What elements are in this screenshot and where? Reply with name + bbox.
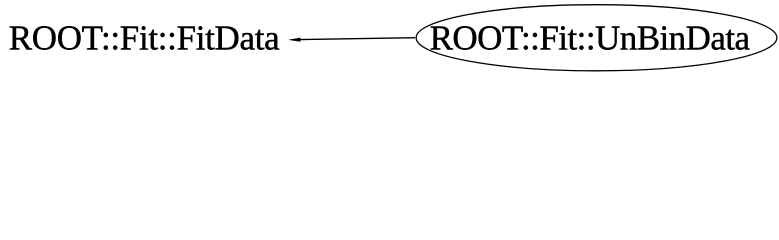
svg-text:ROOT::Fit::UnBinData: ROOT::Fit::UnBinData xyxy=(430,18,751,57)
svg-text:ROOT::Fit::FitData: ROOT::Fit::FitData xyxy=(9,18,280,57)
